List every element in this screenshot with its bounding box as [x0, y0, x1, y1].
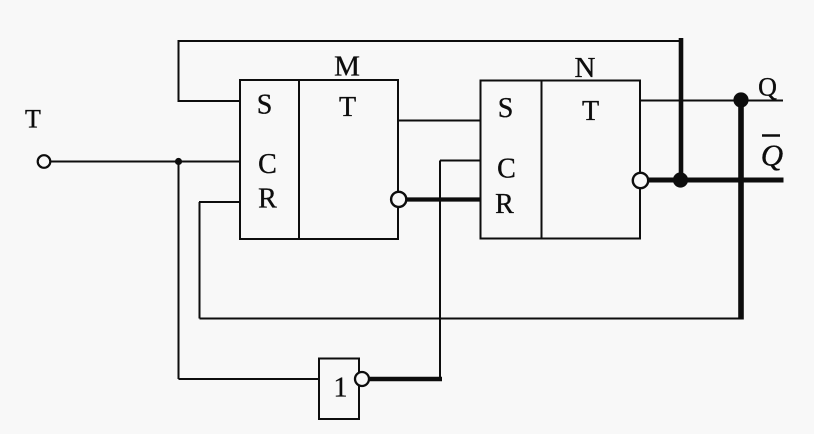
wire: top feedback left vertical	[178, 40, 180, 101]
thick wire: Q feedback vertical down	[738, 100, 744, 320]
inversion bubble at M output	[391, 192, 406, 207]
junction dot Q node	[733, 92, 748, 107]
inversion bubble at inverter output	[355, 372, 369, 386]
inverter gate body	[319, 359, 359, 420]
svg-text:T: T	[25, 105, 41, 134]
junction dot on T line	[175, 158, 182, 165]
svg-text:Q: Q	[758, 73, 777, 102]
flip-flop N body	[481, 81, 641, 239]
label Q-bar	[761, 136, 783, 173]
wire: inverter output up to N C input (vertical)	[439, 161, 441, 380]
svg-text:R: R	[495, 189, 514, 220]
wire: M direct output to N S input	[398, 120, 481, 122]
svg-text:S: S	[257, 90, 273, 121]
svg-text:S: S	[498, 93, 514, 124]
junction dot on Q-bar wire	[673, 172, 688, 187]
wire: N C input horizontal	[440, 160, 481, 162]
svg-text:T: T	[339, 92, 356, 123]
wire: M S input segment	[178, 100, 241, 102]
wire: vertical from T junction down to inverter row	[178, 162, 180, 380]
svg-text:N: N	[575, 52, 596, 84]
svg-text:T: T	[582, 96, 599, 127]
svg-text:M: M	[334, 51, 360, 83]
thick wire: M inverted output to N R input	[406, 197, 481, 201]
wire: N direct output (Q) horizontal	[640, 100, 783, 102]
svg-text:C: C	[258, 149, 277, 180]
flip-flop M body	[240, 80, 398, 239]
svg-text:1: 1	[334, 373, 348, 404]
svg-text:Q: Q	[761, 138, 783, 173]
inversion bubble at N output	[633, 173, 648, 188]
wire: bottom feedback from Q to M R	[200, 318, 742, 320]
thick wire: Q-bar output horizontal	[648, 178, 784, 183]
svg-text:C: C	[497, 154, 516, 185]
thick wire: inverter output to N C line	[369, 377, 442, 381]
wire: M R input horizontal	[199, 201, 240, 203]
terminal T input open circle	[38, 155, 51, 168]
thick wire: Q-bar feedback vertical up to top wire	[679, 38, 684, 180]
wire: T input horizontal to M C pin	[51, 161, 241, 163]
wire: horizontal to inverter input	[179, 378, 320, 380]
wire: top feedback horizontal (S of M to Q-bar net)	[178, 40, 682, 42]
svg-text:R: R	[258, 184, 277, 215]
wire: M R input vertical	[199, 202, 201, 319]
